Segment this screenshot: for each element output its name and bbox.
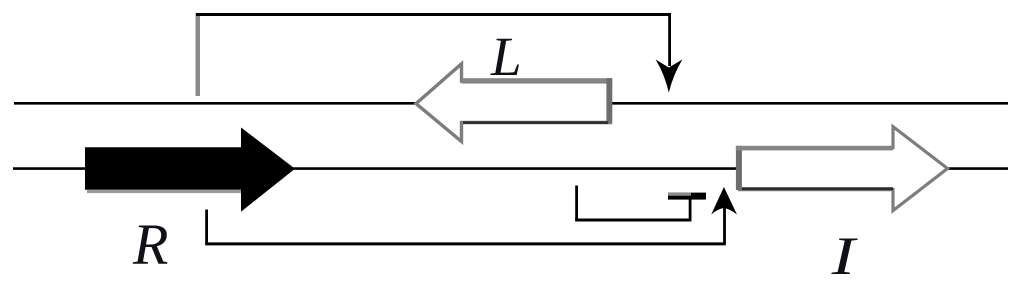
wire top bracket horizontal <box>196 13 671 16</box>
wire top DNA line left segment <box>14 102 1008 105</box>
gene arrow R (black, right-pointing) <box>85 128 295 212</box>
svg-text:I: I <box>831 226 859 286</box>
T-bar repression head <box>668 193 706 200</box>
gene arrow I (white, right-pointing) <box>740 127 948 211</box>
gene arrow R gray under-shadow <box>87 190 241 193</box>
gene arrow L dark bottom edge <box>463 121 608 124</box>
svg-text:R: R <box>132 212 168 277</box>
gene arrow I thick gray left edge <box>736 146 742 190</box>
arrowhead down (activation onto top strand) <box>656 60 683 93</box>
gene arrow L thick gray top edge <box>462 78 613 83</box>
wire bottom DNA line <box>13 167 1008 170</box>
wire bottom bracket vertical stem to up arrow <box>723 206 726 244</box>
svg-text:L: L <box>490 26 522 87</box>
arrowhead up (activation onto I) <box>711 187 737 215</box>
wire bottom bracket vertical at R <box>205 210 208 244</box>
gene arrow I dark bottom edge <box>742 187 893 190</box>
wire repression bracket horizontal <box>575 219 691 222</box>
gene arrow L thick gray right edge <box>606 78 612 123</box>
T-bar gray highlight <box>668 193 691 196</box>
wire top bracket vertical drop <box>668 13 671 66</box>
wire bottom bracket horizontal <box>205 242 726 245</box>
wire repression stem up <box>689 198 692 220</box>
gene arrow I gray top edge <box>736 146 893 151</box>
wire repression bracket vertical left <box>575 186 578 222</box>
gene arrow L (white, left-pointing) <box>416 64 611 142</box>
node top bracket gray tick <box>196 13 201 96</box>
